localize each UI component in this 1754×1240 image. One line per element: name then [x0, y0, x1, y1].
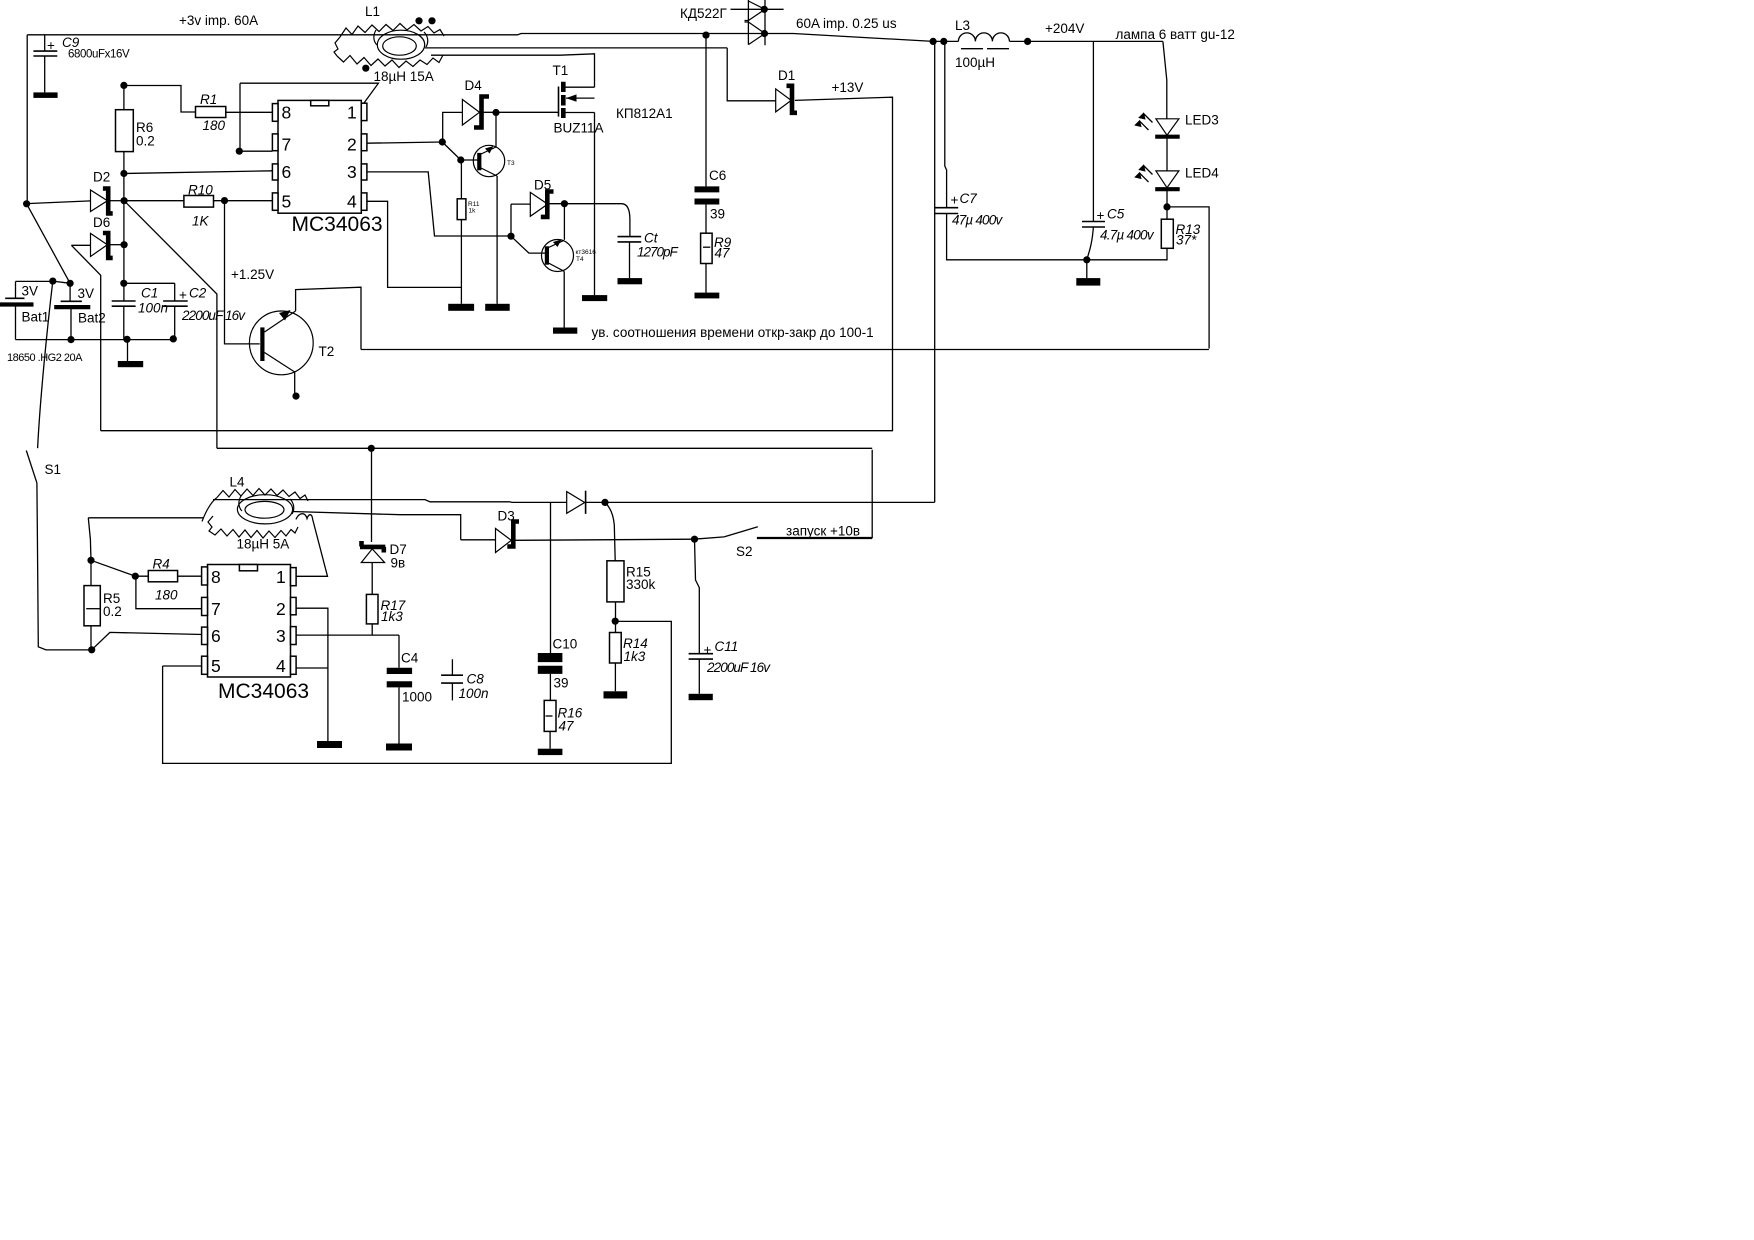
svg-text:60A imp. 0.25 us: 60A imp. 0.25 us	[796, 16, 897, 31]
svg-text:S2: S2	[736, 544, 753, 559]
svg-text:R1: R1	[200, 92, 217, 107]
svg-text:3V: 3V	[22, 284, 39, 299]
svg-text:1000: 1000	[402, 690, 432, 705]
svg-text:100n: 100n	[459, 686, 489, 701]
svg-text:7: 7	[282, 135, 292, 155]
svg-text:L3: L3	[955, 18, 970, 33]
svg-text:1270pF: 1270pF	[637, 245, 679, 260]
svg-text:КД522Г: КД522Г	[680, 6, 728, 21]
svg-text:+1.25V: +1.25V	[231, 267, 274, 282]
svg-text:0.2: 0.2	[136, 134, 155, 149]
svg-text:лампа 6 ватт gu-12: лампа 6 ватт gu-12	[1116, 27, 1235, 42]
svg-text:T2: T2	[319, 344, 335, 359]
svg-text:+: +	[951, 193, 959, 208]
svg-text:L1: L1	[365, 4, 380, 19]
svg-text:D1: D1	[778, 68, 795, 83]
svg-text:180: 180	[155, 588, 178, 603]
svg-text:39: 39	[554, 676, 569, 691]
svg-text:КП812А1: КП812А1	[616, 106, 673, 121]
svg-text:1k3: 1k3	[381, 609, 403, 624]
svg-text:ув. соотношения времени откр-з: ув. соотношения времени откр-закр до 100…	[592, 325, 874, 340]
svg-text:5: 5	[211, 656, 221, 676]
svg-text:кт3616: кт3616	[576, 249, 597, 256]
svg-text:Т4: Т4	[576, 256, 584, 263]
svg-text:D4: D4	[465, 78, 483, 93]
svg-text:8: 8	[282, 103, 292, 123]
svg-text:39: 39	[710, 207, 725, 222]
svg-text:R10: R10	[188, 183, 213, 198]
svg-text:LED4: LED4	[1185, 166, 1219, 181]
svg-text:9в: 9в	[391, 556, 406, 571]
svg-text:C11: C11	[715, 639, 739, 654]
svg-text:47µ 400v: 47µ 400v	[952, 213, 1003, 228]
svg-text:C8: C8	[467, 672, 485, 687]
svg-text:6: 6	[211, 626, 221, 646]
svg-text:5: 5	[282, 192, 292, 212]
svg-text:MC34063: MC34063	[292, 213, 383, 236]
svg-text:2: 2	[347, 135, 357, 155]
svg-text:47: 47	[715, 246, 731, 261]
svg-text:1K: 1K	[192, 214, 210, 229]
svg-text:BUZ11A: BUZ11A	[554, 121, 604, 136]
svg-text:C6: C6	[709, 168, 726, 183]
svg-text:180: 180	[203, 118, 226, 133]
svg-text:запуск +10в: запуск +10в	[786, 524, 860, 539]
svg-text:2200uF 16v: 2200uF 16v	[706, 660, 771, 675]
svg-text:7: 7	[211, 599, 221, 619]
svg-text:4.7µ 400v: 4.7µ 400v	[1100, 228, 1155, 243]
svg-text:18µH 5A: 18µH 5A	[237, 537, 290, 552]
svg-text:2: 2	[276, 599, 286, 619]
svg-text:Bat2: Bat2	[78, 311, 106, 326]
svg-text:S1: S1	[45, 462, 62, 477]
svg-text:0.2: 0.2	[103, 604, 122, 619]
svg-text:C10: C10	[553, 637, 578, 652]
svg-text:47: 47	[559, 719, 575, 734]
svg-text:D6: D6	[93, 215, 110, 230]
svg-text:+: +	[47, 38, 55, 53]
svg-text:100µH: 100µH	[955, 55, 995, 70]
svg-text:4: 4	[347, 192, 357, 212]
svg-text:C7: C7	[960, 191, 978, 206]
svg-text:Ct: Ct	[644, 231, 659, 246]
svg-text:MC34063: MC34063	[218, 680, 309, 703]
svg-text:Bat1: Bat1	[22, 310, 50, 325]
svg-text:T3: T3	[507, 160, 515, 167]
svg-text:100n: 100n	[138, 301, 168, 316]
svg-text:C4: C4	[401, 651, 419, 666]
svg-text:+204V: +204V	[1045, 21, 1084, 36]
svg-text:8: 8	[211, 567, 221, 587]
svg-text:3V: 3V	[78, 286, 95, 301]
svg-text:D3: D3	[498, 509, 515, 524]
svg-text:2200uF 16v: 2200uF 16v	[181, 308, 246, 323]
svg-text:C2: C2	[189, 286, 207, 301]
svg-text:1k: 1k	[469, 208, 477, 215]
svg-text:+3v imp. 60A: +3v imp. 60A	[179, 13, 258, 28]
svg-text:+: +	[1097, 208, 1105, 223]
svg-text:+: +	[704, 643, 712, 658]
svg-text:T1: T1	[553, 63, 569, 78]
svg-text:18µH 15A: 18µH 15A	[374, 69, 434, 84]
svg-text:LED3: LED3	[1185, 113, 1219, 128]
svg-text:+: +	[179, 288, 187, 303]
svg-text:+13V: +13V	[832, 80, 864, 95]
svg-text:L4: L4	[230, 475, 246, 490]
svg-text:330k: 330k	[626, 577, 656, 592]
svg-text:1k3: 1k3	[624, 649, 646, 664]
svg-text:4: 4	[276, 656, 286, 676]
svg-text:1: 1	[276, 567, 286, 587]
svg-text:C5: C5	[1107, 207, 1125, 222]
svg-text:6800uFx16V: 6800uFx16V	[68, 49, 130, 61]
svg-text:3: 3	[347, 162, 357, 182]
svg-text:R4: R4	[153, 557, 170, 572]
svg-text:6: 6	[282, 162, 292, 182]
svg-text:37*: 37*	[1176, 233, 1197, 248]
svg-text:D2: D2	[93, 170, 110, 185]
svg-text:3: 3	[276, 626, 286, 646]
svg-text:C1: C1	[141, 286, 158, 301]
svg-text:1: 1	[347, 103, 357, 123]
